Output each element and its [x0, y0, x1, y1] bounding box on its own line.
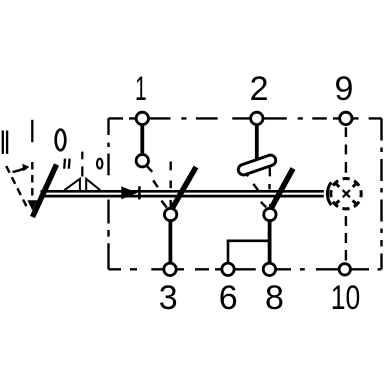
- svg-text:9: 9: [335, 70, 354, 108]
- svg-text:8: 8: [265, 279, 284, 317]
- svg-text:2: 2: [250, 70, 269, 108]
- svg-text:10: 10: [331, 279, 361, 317]
- svg-text:1: 1: [135, 69, 147, 107]
- svg-text:6: 6: [219, 279, 238, 317]
- svg-text:3: 3: [159, 279, 178, 317]
